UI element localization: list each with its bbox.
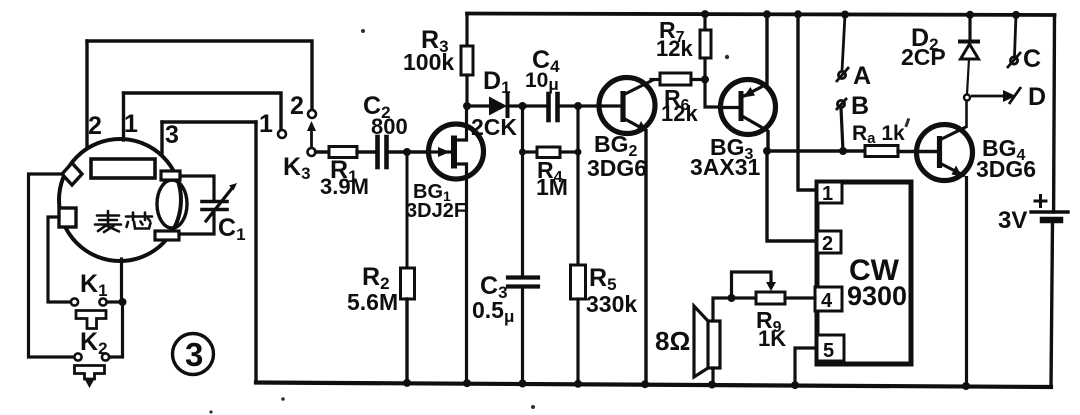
svg-text:K1: K1 <box>80 270 108 300</box>
svg-text:2: 2 <box>822 233 833 255</box>
svg-text:R5: R5 <box>589 264 617 294</box>
svg-text:3AX31: 3AX31 <box>690 154 761 180</box>
svg-text:2CP: 2CP <box>901 44 946 70</box>
svg-text:3DJ2F: 3DJ2F <box>406 200 466 222</box>
svg-text:330k: 330k <box>586 291 637 317</box>
svg-text:D1: D1 <box>483 67 511 97</box>
svg-text:100k: 100k <box>403 49 454 75</box>
svg-text:C: C <box>1023 45 1041 73</box>
svg-text:12k: 12k <box>661 101 698 126</box>
svg-text:4: 4 <box>821 290 833 312</box>
svg-text:K3: K3 <box>283 153 311 183</box>
svg-text:0.5μ: 0.5μ <box>472 297 514 326</box>
svg-text:2: 2 <box>290 92 304 120</box>
svg-text:1: 1 <box>259 110 273 138</box>
svg-text:800: 800 <box>371 114 408 139</box>
svg-text:3V: 3V <box>998 207 1027 234</box>
svg-text:C1: C1 <box>218 214 246 244</box>
svg-text:A: A <box>853 62 871 90</box>
svg-text:1: 1 <box>822 183 833 205</box>
svg-text:5.6M: 5.6M <box>347 289 398 315</box>
svg-text:3DG6: 3DG6 <box>976 156 1036 182</box>
svg-text:B: B <box>851 92 869 120</box>
svg-text:Ra 1k: Ra 1k <box>852 122 905 147</box>
svg-text:1: 1 <box>124 110 138 138</box>
svg-text:D: D <box>1028 83 1046 111</box>
svg-text:1K: 1K <box>758 326 786 351</box>
svg-text:12k: 12k <box>656 36 693 61</box>
svg-text:9300: 9300 <box>847 281 907 311</box>
svg-text:3.9M: 3.9M <box>320 174 369 199</box>
svg-text:K2: K2 <box>80 328 108 358</box>
svg-text:3: 3 <box>185 336 203 373</box>
svg-text:2: 2 <box>88 112 102 140</box>
svg-text:1M: 1M <box>536 174 568 200</box>
svg-text:5: 5 <box>823 340 834 362</box>
svg-text:2CK: 2CK <box>471 114 517 140</box>
svg-text:8Ω: 8Ω <box>655 326 690 356</box>
svg-text:3DG6: 3DG6 <box>587 155 647 181</box>
svg-text:3: 3 <box>165 121 179 149</box>
